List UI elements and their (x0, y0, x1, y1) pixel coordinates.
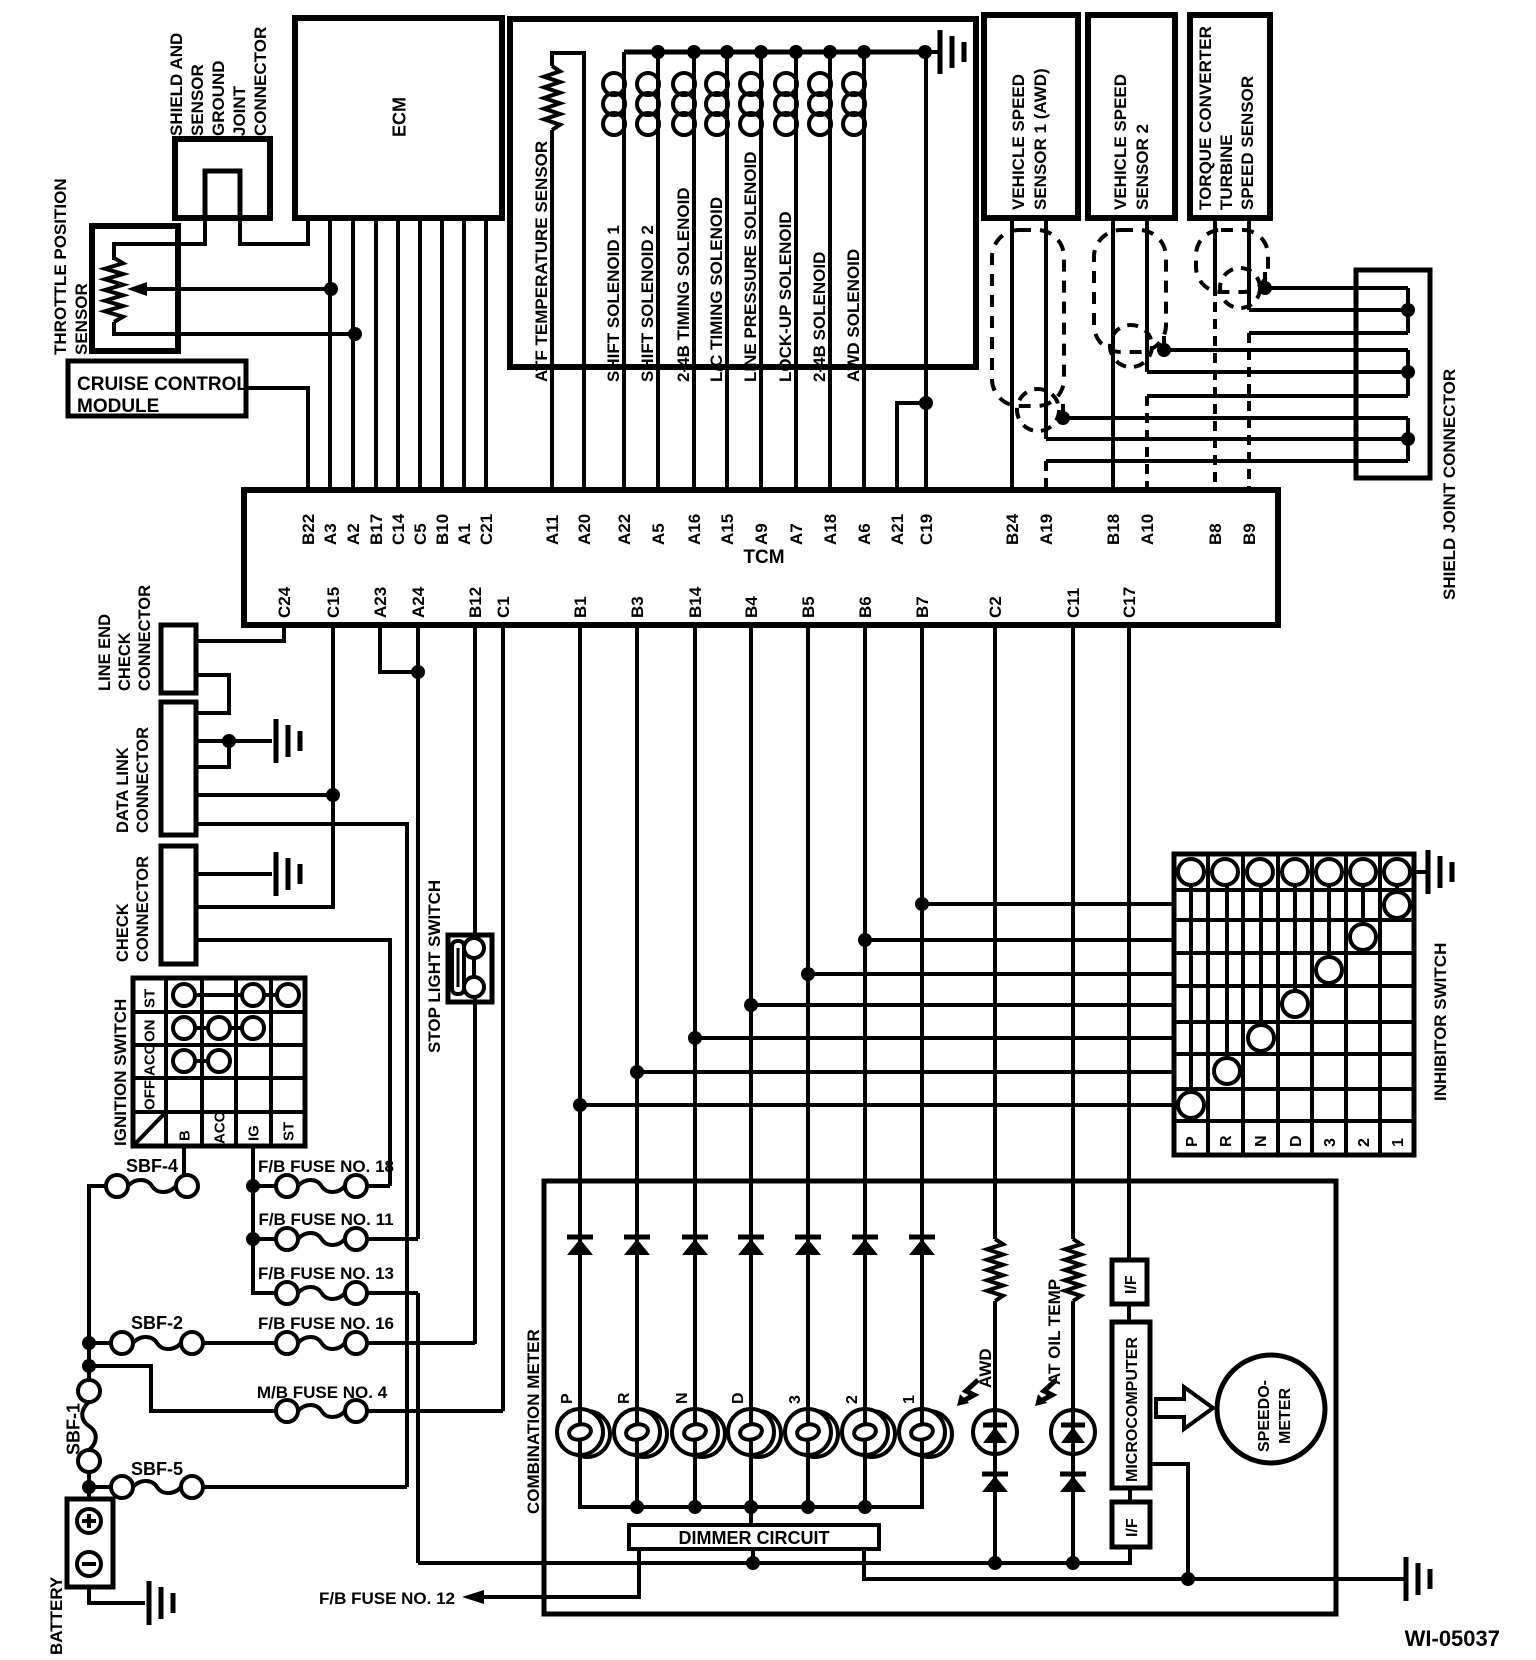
svg-text:B18: B18 (1104, 514, 1123, 545)
svg-text:B6: B6 (856, 596, 875, 618)
label line end check connector (96, 585, 154, 691)
wire VSS2 to B18 (1111, 218, 1115, 490)
lamp 3 (785, 1395, 838, 1457)
shield VSS1 dashed (992, 230, 1064, 431)
wire C24 to line end check connector (196, 625, 284, 641)
label ignition switch (111, 999, 130, 1146)
label F/B fuse no 18 (258, 1157, 394, 1176)
shield and sensor ground joint connector box (175, 139, 270, 218)
svg-text:TORQUE CONVERTER: TORQUE CONVERTER (1196, 26, 1215, 210)
svg-text:CHECK: CHECK (116, 632, 134, 691)
label L/C TIMING SOLENOID (707, 197, 726, 382)
svg-text:A19: A19 (1037, 514, 1056, 545)
LED AWD (973, 1410, 1017, 1454)
wire fuse18 stub (253, 1184, 276, 1188)
wire B1 vertical (578, 625, 582, 1409)
interface box I/F lower (1112, 1502, 1150, 1547)
meter supply bus wire (418, 1549, 1130, 1563)
label shield and sensor ground joint connector (167, 27, 270, 136)
svg-text:B9: B9 (1240, 523, 1259, 545)
wire A24 to fuse 11 (416, 625, 420, 1239)
svg-text:IG: IG (245, 1125, 262, 1141)
svg-text:SENSOR: SENSOR (72, 283, 91, 355)
wire A23 to A24 (380, 625, 425, 679)
battery minus terminal (77, 1552, 101, 1576)
interface box I/F upper (1112, 1260, 1147, 1304)
svg-text:C2: C2 (986, 596, 1005, 618)
transmission solenoid assembly box (510, 19, 976, 367)
solenoid coil AWD SOLENOID (843, 45, 871, 490)
label LOCK-UP SOLENOID (776, 211, 795, 382)
wire ignition B to SBF-4 (182, 1146, 186, 1176)
svg-text:SPEED SENSOR: SPEED SENSOR (1238, 76, 1257, 210)
fuse SBF-1 (78, 1380, 100, 1472)
wire SBF-1 to battery (82, 1472, 96, 1499)
svg-text:SBF-5: SBF-5 (131, 1459, 183, 1479)
diode below AT OIL TEMP (1060, 1474, 1086, 1492)
diode D-2 (852, 1237, 878, 1255)
svg-text:CRUISE CONTROL: CRUISE CONTROL (77, 374, 248, 395)
wire VSS2 drain (1157, 336, 1408, 357)
wire VSS1 drain (1056, 404, 1408, 425)
solenoid coil L/C TIMING SOLENOID (706, 45, 734, 490)
svg-text:A18: A18 (821, 514, 840, 545)
svg-text:C14: C14 (389, 513, 408, 545)
wire TCS to B8 solid (1213, 218, 1217, 296)
wire B4 branch to inhibitor switch (744, 998, 1174, 1012)
diode D-1 (909, 1237, 935, 1255)
diode below AWD (982, 1474, 1008, 1492)
fuse F/B no 13 (276, 1282, 367, 1304)
label F/B fuse no 12 (319, 1589, 455, 1608)
lamp D (728, 1392, 781, 1457)
svg-text:STOP LIGHT SWITCH: STOP LIGHT SWITCH (425, 880, 444, 1053)
svg-text:DATA LINK: DATA LINK (114, 747, 132, 833)
svg-text:I/F: I/F (1123, 1275, 1140, 1294)
wire fuse18 right (367, 1184, 390, 1188)
wire check pin1 to ground (196, 872, 272, 876)
svg-text:B4: B4 (742, 596, 761, 618)
svg-text:C5: C5 (411, 523, 430, 545)
wire C11 vertical (1071, 625, 1075, 1239)
ATF temperature sensor resistor (544, 53, 584, 490)
svg-text:IGNITION SWITCH: IGNITION SWITCH (111, 999, 130, 1146)
svg-text:ON: ON (141, 1020, 158, 1043)
inhibitor labels P R N D 3 2 1 (1184, 1135, 1407, 1147)
svg-text:C21: C21 (477, 514, 496, 545)
wire B6 branch to inhibitor switch (858, 933, 1174, 947)
svg-text:WI-05037: WI-05037 (1405, 1626, 1500, 1651)
wire B9 shield dashed (1247, 333, 1251, 490)
svg-text:DIMMER CIRCUIT: DIMMER CIRCUIT (679, 1528, 830, 1548)
fuse F/B no 16 (276, 1332, 367, 1354)
wire VSS2 to A10 solid (1145, 218, 1149, 372)
resistor R-AWD (987, 1239, 1003, 1301)
wire fuse11 stub (253, 1237, 276, 1241)
svg-text:LINE PRESSURE SOLENOID: LINE PRESSURE SOLENOID (741, 152, 760, 382)
ground G6 battery (149, 1581, 173, 1625)
ground G3 check connector (276, 852, 300, 896)
label 2-4B TIMING SOLENOID (674, 187, 693, 382)
label battery (47, 1576, 66, 1655)
wire C1 to fuse 4 (501, 625, 505, 1411)
svg-text:B: B (176, 1130, 193, 1141)
wire ATF sensor to A11 (550, 130, 554, 490)
svg-text:AT OIL TEMP: AT OIL TEMP (1045, 1279, 1064, 1385)
svg-text:D: D (730, 1392, 747, 1404)
lamp drop wire x751 (749, 1455, 753, 1507)
svg-text:A20: A20 (575, 514, 594, 545)
wire fuse16 right (367, 1341, 475, 1345)
svg-text:TCM: TCM (743, 547, 784, 568)
svg-text:B5: B5 (799, 596, 818, 618)
wire battery to ground (89, 1587, 145, 1603)
label F/B fuse no 13 (258, 1264, 394, 1283)
wire SBF-5 left (89, 1485, 111, 1489)
label AWD (976, 1348, 995, 1388)
wire dimmer left pin to fuse12 arrow (462, 1549, 639, 1604)
svg-text:GROUND: GROUND (209, 60, 228, 136)
diode D-3 (795, 1237, 821, 1255)
svg-text:P: P (1184, 1136, 1201, 1147)
fuse F/B no 11 (276, 1228, 367, 1250)
block arrow to speedometer (1156, 1387, 1213, 1429)
svg-text:SBF-2: SBF-2 (131, 1313, 183, 1333)
svg-text:A6: A6 (855, 523, 874, 545)
svg-text:1: 1 (901, 1395, 918, 1404)
diode D-P (567, 1237, 593, 1255)
svg-text:AWD: AWD (976, 1348, 995, 1388)
throttle position sensor box (92, 226, 178, 351)
svg-text:A5: A5 (649, 523, 668, 545)
svg-text:A23: A23 (371, 587, 390, 618)
svg-text:CONNECTOR: CONNECTOR (134, 856, 152, 962)
fuse SBF-4 (106, 1175, 198, 1197)
wire check pin3 to fuse 18 (196, 940, 390, 1186)
wire VSS2 pin in (1147, 365, 1415, 379)
TCM bottom pin labels (275, 586, 1139, 618)
wire data link pin3 (196, 741, 229, 767)
svg-text:1: 1 (1390, 1138, 1407, 1147)
wire bus to ground (918, 45, 938, 59)
svg-text:ST: ST (141, 989, 158, 1008)
diode D-N (682, 1237, 708, 1255)
cruise control module box (68, 361, 248, 417)
label SHIFT SOLENOID 1 (604, 225, 623, 382)
svg-text:METER: METER (1277, 1388, 1294, 1444)
svg-text:P: P (559, 1393, 576, 1404)
wire line end check to data link (196, 675, 229, 713)
label SHIFT SOLENOID 2 (638, 225, 657, 382)
svg-text:A10: A10 (1138, 514, 1157, 545)
svg-text:VEHICLE SPEED: VEHICLE SPEED (1009, 74, 1028, 210)
svg-text:SBF-4: SBF-4 (126, 1156, 178, 1176)
ground G2 data link (276, 719, 300, 763)
wire A21 to C19 (897, 396, 933, 490)
label SBF-5 (131, 1459, 183, 1479)
solenoid coil SHIFT SOLENOID 1 (603, 52, 625, 490)
svg-text:R: R (616, 1392, 633, 1404)
LED AT OIL TEMP (1051, 1410, 1095, 1454)
wire battery rail to SBF-4 (82, 1186, 106, 1380)
data link connector box (161, 702, 196, 835)
lamp drop wire x637 (635, 1455, 639, 1507)
label AWD SOLENOID (844, 249, 863, 382)
solenoid coil LOCK-UP SOLENOID (775, 45, 803, 490)
wire SBF-5 right (203, 1485, 407, 1489)
wire ignition IG to fuses (246, 1146, 276, 1293)
inhibitor switch top contacts (1178, 859, 1410, 885)
wire C2 vertical (993, 625, 997, 1239)
wire data link pin5 to SBF-5 (196, 824, 407, 1487)
combination meter box (544, 1181, 1336, 1614)
svg-text:3: 3 (1322, 1138, 1339, 1147)
lamp drop wire x695 (693, 1455, 697, 1507)
wire bus to dimmer (749, 1507, 753, 1525)
fuse SBF-5 (111, 1476, 203, 1498)
wire fuse4 left jog (89, 1366, 276, 1411)
wire TPS wiper to A3 (127, 282, 338, 296)
diode D-R (624, 1237, 650, 1255)
svg-text:C11: C11 (1064, 588, 1083, 618)
line end check connector box (161, 625, 196, 693)
svg-text:INHIBITOR SWITCH: INHIBITOR SWITCH (1431, 943, 1450, 1101)
svg-text:2-4B SOLENOID: 2-4B SOLENOID (810, 252, 829, 382)
label LINE PRESSURE SOLENOID (741, 152, 760, 382)
joint bus TCS (1406, 288, 1410, 333)
inhibitor switch grid (1174, 854, 1414, 1155)
svg-text:A24: A24 (409, 586, 428, 618)
svg-text:D: D (1288, 1135, 1305, 1147)
svg-text:SHIELD JOINT CONNECTOR: SHIELD JOINT CONNECTOR (1440, 369, 1459, 600)
wire fuse13 to meter bus (416, 1293, 420, 1563)
wire B14 vertical (693, 625, 697, 1409)
wire data link pin2 to ground (196, 734, 272, 748)
svg-text:C19: C19 (917, 514, 936, 545)
torque converter turbine speed sensor box (1190, 15, 1270, 218)
svg-text:OFF: OFF (141, 1080, 158, 1110)
fuse M/B no 4 (276, 1400, 367, 1422)
svg-text:LOCK-UP SOLENOID: LOCK-UP SOLENOID (776, 211, 795, 382)
svg-text:N: N (674, 1392, 691, 1404)
wire B5 branch to inhibitor switch (801, 967, 1174, 981)
svg-text:L/C TIMING SOLENOID: L/C TIMING SOLENOID (707, 197, 726, 382)
solenoid coil 2-4B TIMING SOLENOID (673, 45, 701, 490)
wire fuse13 right (367, 1291, 418, 1295)
svg-text:F/B FUSE NO. 13: F/B FUSE NO. 13 (258, 1264, 394, 1283)
svg-text:B3: B3 (628, 596, 647, 618)
wire AWD column (988, 1301, 1002, 1570)
wire B3 vertical (635, 625, 639, 1409)
svg-text:3: 3 (787, 1395, 804, 1404)
svg-text:A9: A9 (752, 523, 771, 545)
wire SBF-2 left (89, 1341, 111, 1345)
wire B9 return (1249, 331, 1408, 335)
svg-text:CONNECTOR: CONNECTOR (136, 585, 154, 691)
wire dimmer right pin to ground bus (864, 1549, 1404, 1586)
svg-text:A21: A21 (888, 514, 907, 545)
diode D-D (738, 1237, 764, 1255)
svg-text:A3: A3 (321, 523, 340, 545)
svg-text:B12: B12 (466, 587, 485, 618)
svg-text:SHIELD AND: SHIELD AND (167, 33, 186, 136)
ground G1 solenoid box (940, 30, 964, 74)
wire ECM to TCM A3 (328, 218, 332, 490)
label F/B fuse no 11 (258, 1210, 393, 1229)
svg-text:VEHICLE SPEED: VEHICLE SPEED (1111, 74, 1130, 210)
svg-text:A16: A16 (685, 514, 704, 545)
fuse F/B no 18 (276, 1175, 367, 1197)
wire microcomputer to ground bus (1150, 1464, 1188, 1579)
label inhibitor switch (1431, 943, 1450, 1101)
wire ECM to TCM C21 (484, 218, 488, 490)
stop light switch box (448, 935, 492, 1002)
label AT OIL TEMP (1045, 1279, 1064, 1385)
wire A10 return (1147, 394, 1408, 398)
wire B6 vertical (863, 625, 867, 1409)
lamp N (672, 1392, 725, 1457)
svg-text:LINE END: LINE END (96, 614, 114, 691)
svg-text:B24: B24 (1003, 513, 1022, 545)
label SBF-4 (126, 1156, 178, 1176)
label SBF-2 (131, 1313, 183, 1333)
wire B7 branch to inhibitor switch (915, 897, 1174, 911)
bolt arrow AT OIL TEMP (1035, 1380, 1056, 1406)
svg-text:AWD SOLENOID: AWD SOLENOID (844, 249, 863, 382)
wire VSS1 pin in (1046, 432, 1415, 446)
lamp drop wire x808 (806, 1455, 810, 1507)
svg-text:SENSOR 2: SENSOR 2 (1133, 124, 1152, 210)
svg-text:SPEEDO-: SPEEDO- (1256, 1380, 1273, 1452)
wire IF to microcomputer (1127, 1304, 1131, 1322)
lamp bus wire (580, 1455, 922, 1514)
bolt arrow AWD (957, 1380, 978, 1406)
svg-text:BATTERY: BATTERY (47, 1576, 66, 1655)
svg-text:SHIFT SOLENOID 2: SHIFT SOLENOID 2 (638, 225, 657, 382)
wire B4 vertical (749, 625, 753, 1409)
inhibitor switch movable contacts (1178, 885, 1410, 1118)
svg-text:CONNECTOR: CONNECTOR (251, 27, 270, 136)
svg-text:A7: A7 (787, 523, 806, 545)
wire ECM to TCM A1 (462, 218, 466, 490)
label throttle position sensor (51, 178, 91, 355)
svg-text:CHECK: CHECK (114, 903, 132, 962)
svg-text:JOINT: JOINT (230, 85, 249, 136)
wire microcomputer to IF lower (1128, 1488, 1132, 1502)
wire C17 vertical (1127, 625, 1131, 1260)
label F/B fuse no 16 (258, 1314, 394, 1333)
svg-text:CONNECTOR: CONNECTOR (134, 727, 152, 833)
solenoid coil LINE PRESSURE SOLENOID (740, 45, 768, 490)
label stop light switch (425, 880, 444, 1053)
wire B3 branch to inhibitor switch (630, 1065, 1174, 1079)
wire A10 shield dashed (1145, 396, 1149, 490)
svg-text:B22: B22 (299, 514, 318, 545)
svg-text:F/B FUSE NO. 16: F/B FUSE NO. 16 (258, 1314, 394, 1333)
svg-text:A15: A15 (718, 514, 737, 545)
svg-text:SHIFT SOLENOID 1: SHIFT SOLENOID 1 (604, 225, 623, 382)
wire inhibitor to ground (1414, 870, 1426, 874)
wire stop light switch to fuse 16 (473, 997, 477, 1344)
wire cruise control to TCM B22 (246, 388, 308, 490)
wire VSS1 to A19 solid (1044, 218, 1048, 439)
label M/B fuse no 4 (257, 1383, 388, 1402)
lamp P (557, 1393, 610, 1457)
svg-text:MODULE: MODULE (77, 396, 159, 417)
wire B14 branch to inhibitor switch (688, 1031, 1174, 1045)
svg-text:B14: B14 (686, 586, 705, 618)
label 2-4B SOLENOID (810, 252, 829, 382)
vehicle speed sensor 2 box (1088, 15, 1175, 218)
wire data link pin4 to C15 (196, 788, 340, 802)
wire A19 shield dashed (1044, 461, 1048, 490)
shield joint connector box (1356, 270, 1430, 478)
label shield joint connector (1440, 369, 1459, 600)
vehicle speed sensor 1 box (984, 15, 1078, 218)
lamp 1 (899, 1395, 952, 1457)
lamp drop wire x865 (863, 1455, 867, 1507)
svg-text:B7: B7 (913, 596, 932, 618)
svg-text:F/B FUSE NO. 12: F/B FUSE NO. 12 (319, 1589, 455, 1608)
wire joint connector to ECM stub (240, 218, 308, 244)
svg-text:C15: C15 (324, 587, 343, 618)
lamp 2 (842, 1395, 895, 1457)
fuse SBF-2 (111, 1332, 203, 1354)
svg-text:TURBINE: TURBINE (1217, 134, 1236, 210)
svg-text:2: 2 (1356, 1138, 1373, 1147)
wire fuse11 right (367, 1237, 418, 1241)
joint bus VSS1 (1406, 418, 1410, 461)
svg-text:ECM: ECM (390, 97, 410, 137)
dimmer circuit box (629, 1525, 879, 1549)
svg-text:I/F: I/F (1124, 1518, 1141, 1537)
svg-text:B17: B17 (367, 514, 386, 545)
label combination meter (524, 1329, 543, 1514)
solenoid coil SHIFT SOLENOID 2 (637, 45, 665, 490)
svg-text:SENSOR 1 (AWD): SENSOR 1 (AWD) (1031, 68, 1050, 210)
lamp R (614, 1392, 667, 1457)
ground G5 meter (1406, 1557, 1430, 1601)
svg-text:B10: B10 (433, 514, 452, 545)
TCM top pin labels (299, 513, 1259, 545)
shield VSS2 dashed (1094, 230, 1166, 367)
svg-text:SENSOR: SENSOR (188, 64, 207, 136)
resistor R-AT OIL TEMP (1065, 1239, 1081, 1301)
wire ECM to TCM B17 (374, 218, 378, 490)
svg-text:ST: ST (280, 1122, 297, 1141)
check connector box (161, 846, 196, 964)
wire joint connector to TPS (114, 218, 205, 260)
battery plus terminal (77, 1509, 101, 1533)
wire B12 to stop light switch (473, 625, 477, 940)
solenoid coil 2-4B SOLENOID (809, 45, 837, 490)
svg-text:C1: C1 (494, 596, 513, 618)
svg-text:ACC: ACC (141, 1043, 158, 1076)
svg-text:SBF-1: SBF-1 (64, 1403, 84, 1455)
svg-text:C24: C24 (275, 586, 294, 618)
wire dimmer mid pin (746, 1549, 760, 1570)
wire TPS lower lead to A2 (114, 322, 362, 341)
wire B8 shield dashed (1213, 302, 1217, 490)
wire fuse4 right (367, 1409, 503, 1413)
label data link connector (114, 727, 152, 833)
svg-text:C17: C17 (1120, 587, 1139, 618)
svg-text:F/B FUSE NO. 11: F/B FUSE NO. 11 (258, 1210, 393, 1229)
svg-text:A1: A1 (455, 523, 474, 545)
svg-text:2-4B TIMING SOLENOID: 2-4B TIMING SOLENOID (674, 187, 693, 382)
svg-text:B8: B8 (1206, 523, 1225, 545)
svg-text:A11: A11 (543, 515, 562, 545)
